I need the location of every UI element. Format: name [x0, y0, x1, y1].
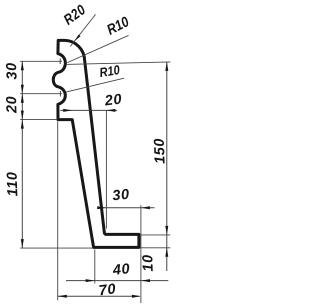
arrow dim30-mid right (left-pointing, outside)	[141, 206, 150, 209]
svg-text:R10: R10	[98, 62, 121, 80]
svg-text:20: 20	[103, 92, 123, 110]
arrow dim40 left (right-pointing, outside)	[86, 279, 95, 282]
profile outline (moulding cross-section with R20 top corner, two R10 scallops, slanted web, bottom flange)	[53, 40, 139, 247]
arrow dim20-left top (up)	[21, 94, 24, 103]
svg-text:20: 20	[4, 95, 21, 114]
svg-text:40: 40	[111, 261, 131, 279]
svg-text:30: 30	[112, 187, 131, 205]
left chain dimension line (dims 30 / 20 / 110)	[21, 61, 23, 248]
arrow dim150 bottom / dim10 top (down)	[165, 226, 168, 235]
arrow dim30-left top (up)	[21, 61, 24, 70]
dimension line 70 (overall width)	[58, 295, 140, 297]
arrow dim10 bottom (up, outside)	[165, 248, 168, 257]
arrow dim150 top (up)	[165, 62, 168, 71]
center tick notch2	[59, 91, 61, 96]
svg-text:110: 110	[5, 171, 22, 196]
arrow dim20-top right (left-pointing, outside)	[106, 109, 115, 112]
svg-text:10: 10	[140, 254, 157, 272]
arrow dim70 left (left-pointing)	[58, 295, 67, 298]
leader line R10 (notch2)	[66, 78, 124, 92]
extension line x=94.8 (web bottom left face)	[94, 250, 96, 284]
extension line flange bottom right	[141, 247, 171, 249]
svg-text:150: 150	[152, 138, 169, 165]
extension line x=57.7 (head left face)	[57, 122, 59, 301]
extension line x=140.9 (flange right face)	[140, 205, 142, 303]
arrow dim30-mid left (right-pointing, outside)	[97, 206, 106, 209]
arrow dim110 top (up)	[21, 120, 24, 129]
dimension line 20 (web offset at head)	[60, 109, 117, 111]
extension line at head bottom y=119.6	[20, 119, 57, 121]
arrow dim20-left bottom (down)	[21, 111, 24, 120]
svg-text:70: 70	[98, 281, 117, 299]
arrow dim30-left bottom (down)	[21, 85, 24, 94]
leader line R20	[70, 14, 95, 46]
extension line flange top right	[141, 234, 171, 236]
extension line at notch2 center y=93.7	[20, 93, 62, 95]
right extension line from notch1 (slightly sloped)	[66, 62, 171, 65]
dimension line 30 (flange setback)	[101, 207, 155, 209]
right dimension line (dims 150 / 10)	[166, 62, 168, 271]
center tick notch1	[59, 59, 61, 64]
arrow dim20-top left (right-pointing)	[63, 109, 72, 112]
extension line x=106.4 (web outer face at flange)	[105, 111, 107, 229]
arrow dim40 right (left-pointing, outside)	[141, 279, 150, 282]
leader line R10 (notch1)	[67, 35, 128, 62]
leader arrowhead R20	[74, 35, 80, 42]
extension line at notch1 center y=61.3	[20, 60, 62, 62]
arrow dim70 right (right-pointing)	[132, 295, 141, 298]
arrow dim110 bottom (down)	[21, 239, 24, 248]
dimension line 40 (flange length)	[66, 280, 168, 282]
svg-text:30: 30	[4, 62, 21, 80]
extension line at foot bottom y=248.1	[20, 247, 93, 249]
